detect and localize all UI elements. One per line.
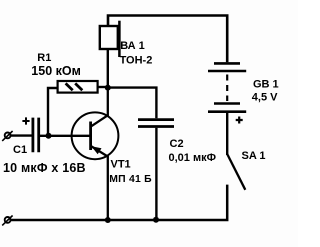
transistor VT1 base bar bbox=[89, 122, 92, 151]
terminal: bottom clamp bbox=[5, 217, 11, 223]
capacitor C1 polarity plus bbox=[22, 117, 29, 124]
wire: top rail from BA1 to battery bbox=[108, 16, 227, 63]
transistor VT1 emitter arrow bbox=[91, 146, 101, 154]
terminal: input clamp bbox=[5, 133, 11, 139]
battery GB1 dashed link bbox=[226, 75, 228, 102]
junction: collector node bbox=[105, 85, 111, 91]
capacitor C1 plates bbox=[33, 118, 39, 153]
junction: emitter/rail bbox=[105, 217, 111, 223]
battery GB1 cell2 long plate bbox=[208, 110, 246, 113]
terminal: bottom clamp slash bbox=[2, 216, 12, 226]
svg-text:150 кОм: 150 кОм bbox=[31, 64, 81, 78]
svg-text:С2: С2 bbox=[170, 138, 184, 150]
transistor VT1 circle bbox=[72, 112, 119, 159]
svg-text:ТОН-2: ТОН-2 bbox=[120, 55, 153, 67]
svg-text:SA 1: SA 1 bbox=[242, 150, 266, 162]
wire: R1 right lead to collector node bbox=[98, 86, 108, 88]
svg-text:VT1: VT1 bbox=[111, 159, 131, 171]
switch SA1 blade bbox=[227, 154, 245, 190]
terminal: input clamp slash bbox=[2, 131, 12, 141]
battery GB1 cell1 long plate bbox=[208, 70, 246, 73]
wire: C1 to base node bbox=[40, 135, 49, 137]
battery GB1 cell2 short plate bbox=[214, 102, 240, 105]
svg-text:4,5 V: 4,5 V bbox=[252, 92, 278, 104]
wire: BA1 bottom to collector node bbox=[107, 49, 109, 88]
svg-text:МП 41 Б: МП 41 Б bbox=[109, 174, 152, 185]
resistor R1 power-rating slashes bbox=[66, 83, 83, 90]
svg-text:R1: R1 bbox=[37, 52, 51, 64]
wire: C2 bottom to ground rail bbox=[155, 128, 157, 220]
junction: C2/rail bbox=[153, 217, 159, 223]
junction: base node bbox=[46, 133, 52, 139]
wire: battery to switch SA1 bbox=[226, 113, 228, 155]
resistor R1 body bbox=[58, 81, 98, 93]
battery GB1 plus sign bbox=[236, 117, 243, 124]
transistor VT1 emitter lead bbox=[91, 146, 108, 220]
svg-text:GB 1: GB 1 bbox=[253, 78, 279, 90]
wire: base node to transistor base bbox=[49, 135, 90, 137]
wire: input terminal to C1 bbox=[11, 134, 32, 136]
wire: R1 left lead down to base node bbox=[48, 88, 58, 136]
battery GB1 cell1 short plate bbox=[214, 62, 240, 65]
loudspeaker BA1 side bar bbox=[118, 21, 121, 57]
capacitor C2 plates bbox=[138, 120, 174, 127]
wire: collector node to C2 top bbox=[108, 88, 157, 119]
svg-text:С1: С1 bbox=[13, 144, 27, 156]
wire: bottom ground rail bbox=[11, 185, 227, 220]
svg-text:0,01 мкФ: 0,01 мкФ bbox=[169, 152, 217, 164]
loudspeaker BA1 body bbox=[100, 26, 118, 49]
transistor VT1 collector lead bbox=[91, 88, 108, 127]
svg-text:ВА 1: ВА 1 bbox=[120, 40, 145, 52]
svg-text:10 мкФ х 16В: 10 мкФ х 16В bbox=[3, 161, 86, 175]
